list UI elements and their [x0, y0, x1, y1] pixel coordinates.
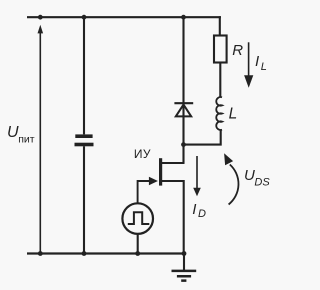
Upit voltage arrow shaft: [39, 33, 41, 254]
capacitor C top plate: [75, 134, 92, 138]
svg-text:L: L: [229, 105, 238, 122]
ID current arrow: [196, 156, 198, 189]
transistor channel bar: [159, 158, 162, 185]
svg-text:U: U: [7, 124, 19, 141]
svg-text:ИУ: ИУ: [134, 147, 151, 161]
svg-text:L: L: [261, 61, 267, 73]
wire: right branch down to resistor: [219, 16, 221, 35]
svg-text:I: I: [192, 201, 196, 218]
pulse generator circle: [122, 203, 153, 234]
svg-text:U: U: [244, 167, 255, 184]
wire: diode branch / drain vertical: [161, 17, 185, 163]
svg-text:D: D: [198, 208, 206, 220]
ground symbol: [172, 271, 197, 281]
capacitor branch top wire: [83, 17, 85, 134]
inductor L coil: [216, 97, 222, 130]
wire: top supply rail: [27, 16, 221, 18]
pulse waveform symbol: [128, 212, 150, 224]
svg-text:R: R: [232, 42, 243, 59]
node dots: bottom rail: [38, 251, 43, 256]
UDS arc arrow: [229, 165, 239, 205]
capacitor C bottom plate: [75, 143, 94, 147]
resistor R body: [214, 36, 227, 63]
svg-text:пит: пит: [18, 133, 35, 145]
wire: generator to bottom rail: [137, 235, 139, 254]
node dots: top rail: [38, 15, 43, 20]
diode VD cathode bar: [174, 102, 193, 104]
capacitor branch bottom wire: [83, 146, 85, 253]
transistor source lead and wire to bottom rail: [162, 180, 184, 254]
wire: bottom rail: [27, 252, 186, 254]
IL current arrow: [248, 42, 250, 76]
wire: ground stub: [183, 254, 185, 271]
gate arrowhead: [149, 177, 158, 186]
svg-text:I: I: [255, 53, 259, 70]
transistor gate lead from generator: [138, 181, 150, 203]
node: drain junction dot: [181, 142, 186, 147]
Upit arrowhead: [38, 25, 44, 34]
diode VD triangle: [176, 105, 191, 117]
svg-text:DS: DS: [254, 177, 270, 189]
wire: resistor to inductor: [219, 64, 221, 98]
UDS arrowhead: [224, 153, 233, 165]
wire: inductor bottom to drain node: [183, 129, 221, 144]
